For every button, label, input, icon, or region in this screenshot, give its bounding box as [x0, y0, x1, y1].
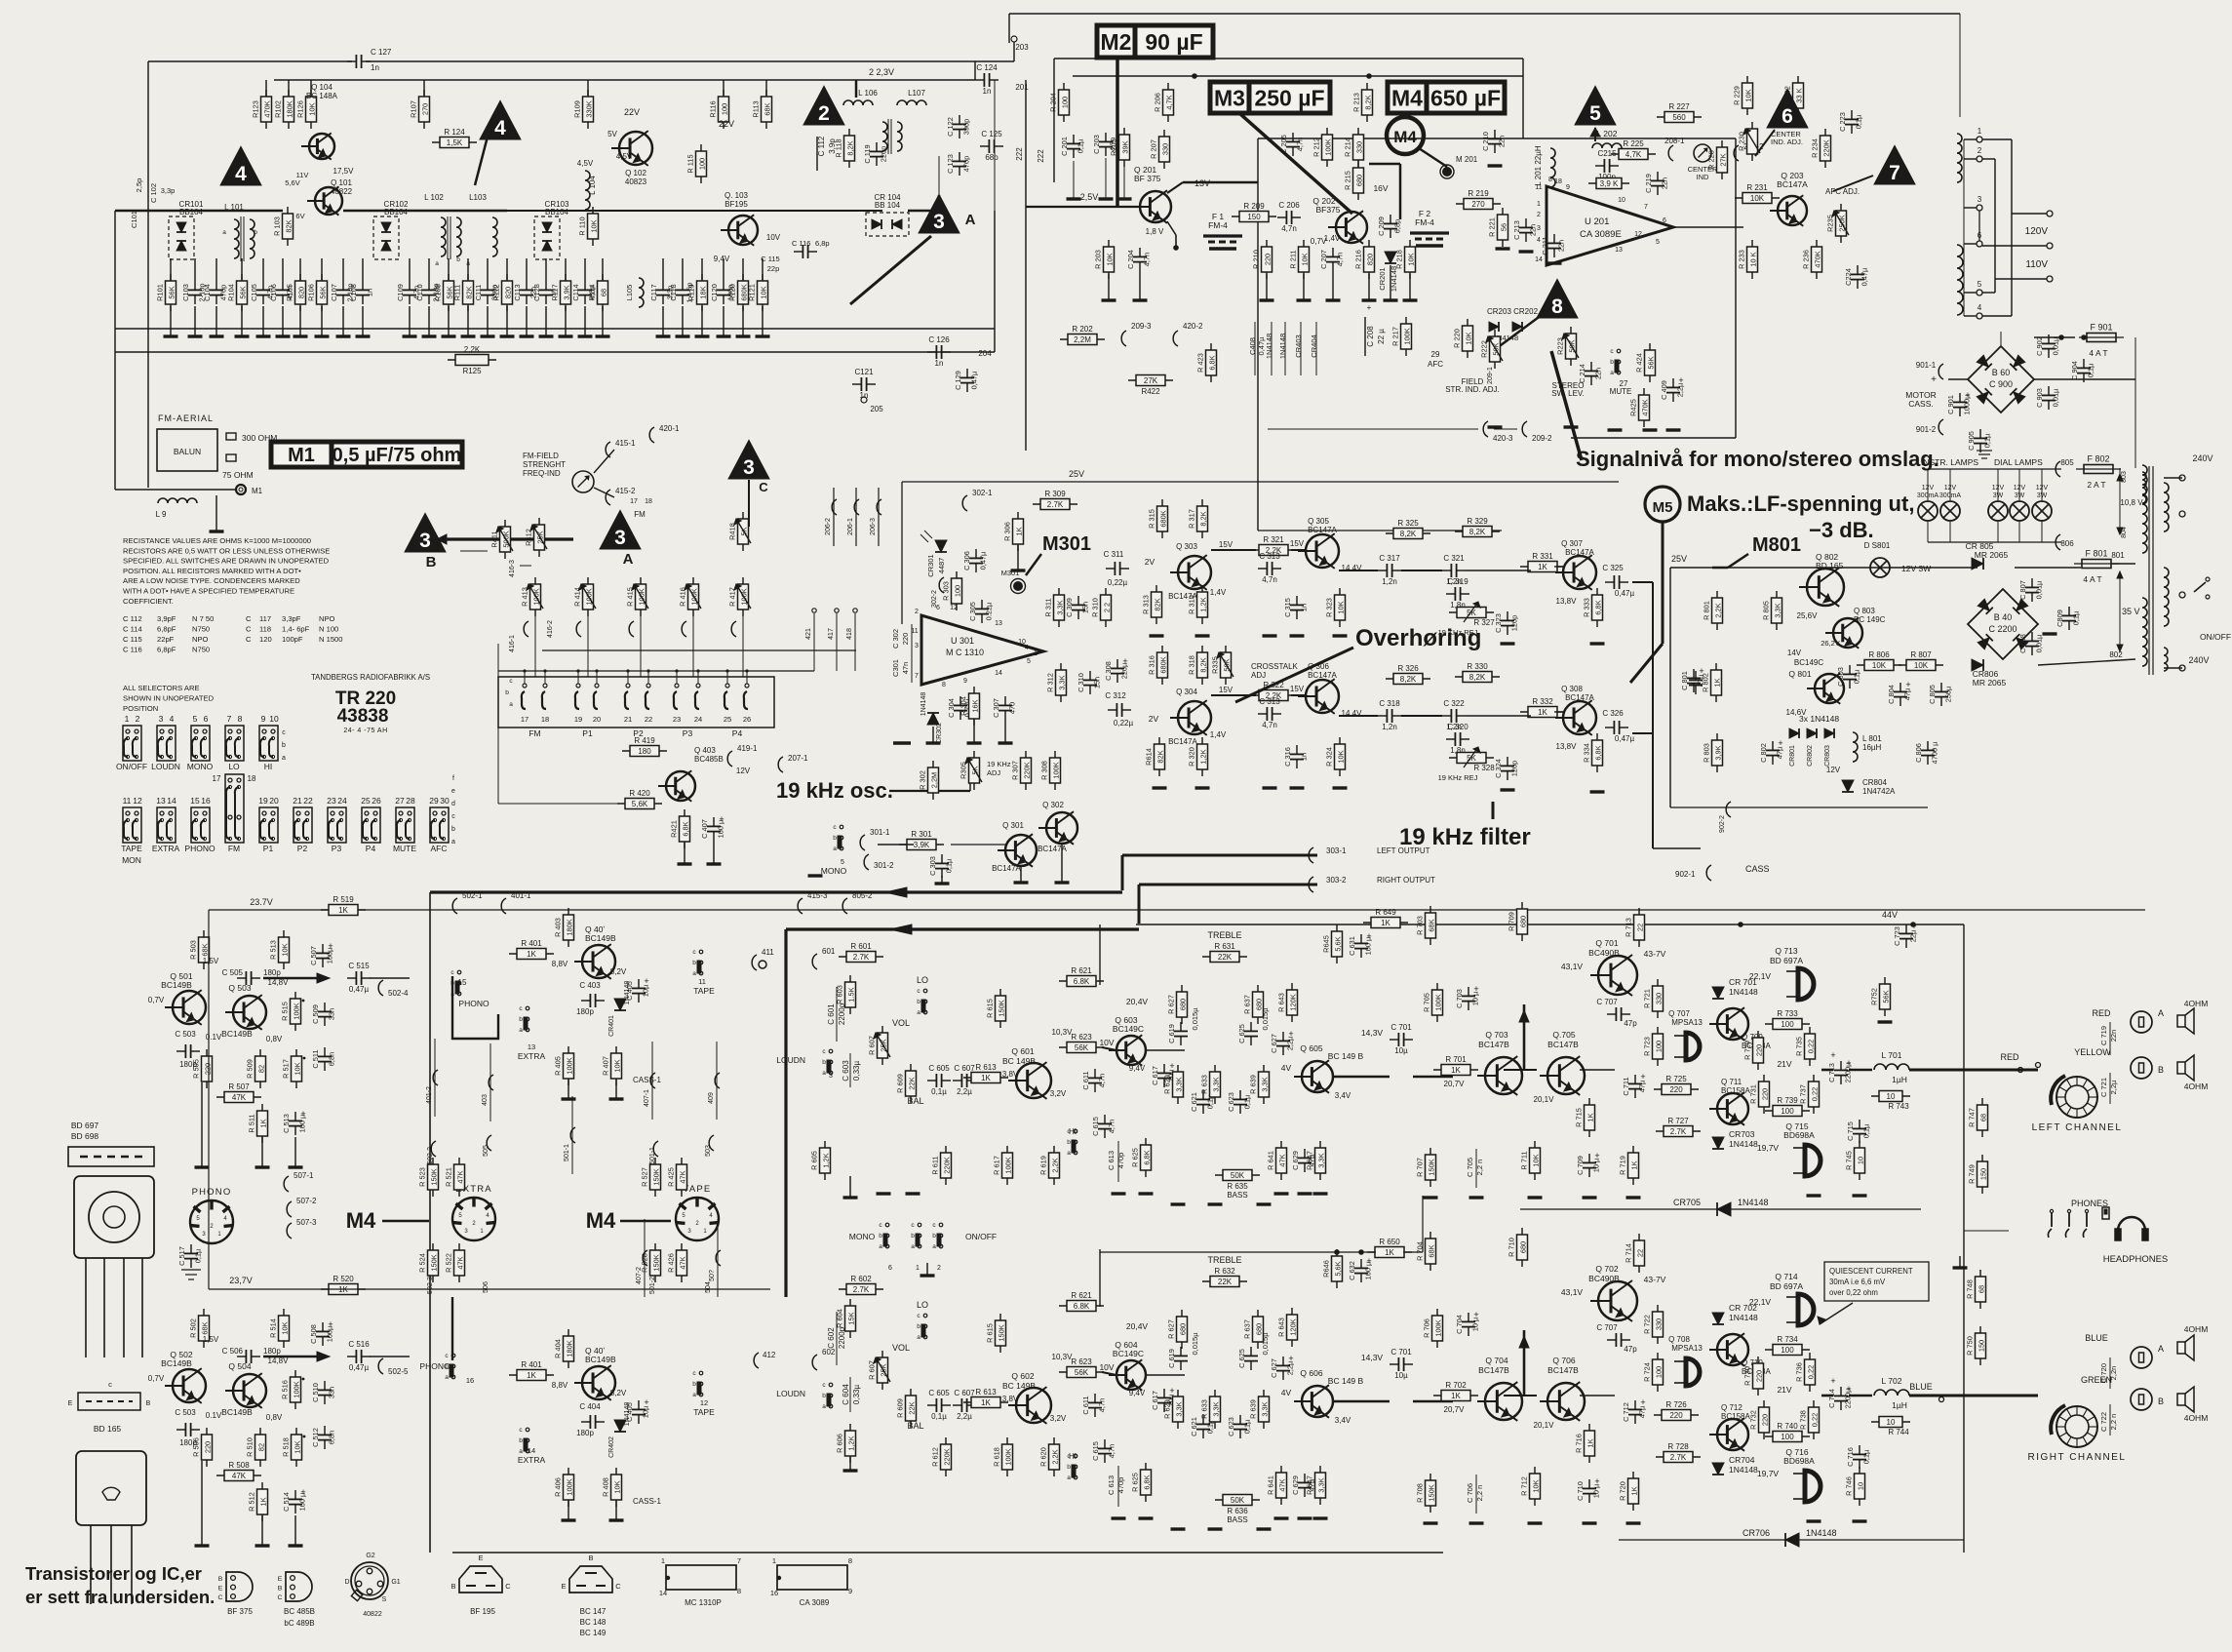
svg-text:220: 220 — [1264, 254, 1273, 265]
svg-text:180p: 180p — [263, 1347, 281, 1356]
svg-text:C 613: C 613 — [1107, 1151, 1116, 1170]
svg-text:−3 dB.: −3 dB. — [1809, 518, 1874, 542]
svg-text:10: 10 — [1887, 1092, 1896, 1101]
svg-text:R 713: R 713 — [1625, 918, 1633, 937]
svg-text:Q 702: Q 702 — [1595, 1264, 1618, 1274]
svg-text:BC490B: BC490B — [1588, 1274, 1620, 1283]
svg-text:a: a — [917, 1334, 920, 1341]
svg-text:1K: 1K — [1538, 708, 1547, 717]
svg-text:C 808: C 808 — [2018, 634, 2027, 653]
svg-text:47K: 47K — [456, 1170, 465, 1183]
svg-text:4,7n: 4,7n — [1108, 1120, 1116, 1133]
svg-text:0,1µ: 0,1µ — [2072, 610, 2081, 625]
svg-text:M5: M5 — [1653, 499, 1673, 516]
svg-text:R 643: R 643 — [1277, 1318, 1286, 1337]
svg-text:33n: 33n — [328, 1387, 336, 1398]
svg-text:1µH: 1µH — [1892, 1075, 1907, 1084]
svg-text:RECISTORS ARE 0,5 WATT OR: RECISTORS ARE 0,5 WATT OR LESS UNLESS OT… — [123, 546, 330, 555]
svg-text:2: 2 — [937, 1265, 941, 1272]
svg-text:3,4V: 3,4V — [1335, 1416, 1351, 1425]
svg-text:22,1V: 22,1V — [1749, 971, 1772, 981]
svg-text:Q 708: Q 708 — [1668, 1335, 1690, 1344]
svg-text:Q 302: Q 302 — [1042, 801, 1064, 809]
svg-text:L 106: L 106 — [858, 89, 878, 98]
svg-text:C809: C809 — [2056, 610, 2064, 627]
svg-text:421: 421 — [805, 628, 812, 640]
svg-text:C 102: C 102 — [149, 183, 158, 203]
svg-text:R 636: R 636 — [1227, 1507, 1248, 1515]
svg-text:82K: 82K — [1156, 750, 1165, 763]
svg-text:R 320: R 320 — [1188, 747, 1196, 767]
svg-text:330: 330 — [1355, 141, 1364, 153]
svg-text:16V: 16V — [1373, 183, 1388, 193]
svg-text:15V: 15V — [1290, 539, 1305, 548]
svg-text:68: 68 — [1977, 1285, 1986, 1293]
svg-text:C224: C224 — [1844, 268, 1853, 286]
svg-text:26: 26 — [372, 796, 381, 806]
svg-text:BC158A: BC158A — [1721, 1412, 1750, 1421]
svg-text:c: c — [917, 1313, 920, 1319]
svg-text:1K: 1K — [338, 906, 348, 915]
svg-text:22K: 22K — [1218, 1278, 1233, 1286]
svg-text:R 407: R 407 — [602, 1056, 610, 1076]
svg-text:L 702: L 702 — [1882, 1376, 1902, 1386]
svg-text:10K: 10K — [1750, 194, 1765, 203]
svg-text:14V: 14V — [1787, 649, 1802, 657]
svg-text:BAL: BAL — [907, 1096, 923, 1106]
svg-text:C 316: C 316 — [1283, 747, 1292, 767]
svg-text:14: 14 — [528, 1446, 535, 1455]
svg-text:0.1V: 0.1V — [206, 1411, 222, 1420]
svg-text:R 607: R 607 — [868, 1360, 877, 1380]
svg-text:R 415: R 415 — [626, 587, 635, 607]
svg-text:0,015µ: 0,015µ — [1261, 1332, 1270, 1356]
svg-text:M301: M301 — [1001, 569, 1020, 577]
svg-text:R 746: R 746 — [1845, 1476, 1854, 1496]
svg-text:R 317: R 317 — [1188, 509, 1196, 529]
svg-text:C 209: C 209 — [1377, 216, 1386, 236]
svg-text:R 623: R 623 — [1071, 1357, 1092, 1366]
svg-text:CR203 CR202: CR203 CR202 — [1487, 307, 1539, 316]
svg-text:FM-4: FM-4 — [1415, 217, 1434, 227]
svg-text:680K: 680K — [1159, 510, 1168, 527]
svg-text:C120: C120 — [710, 284, 719, 301]
svg-text:R614: R614 — [1145, 748, 1154, 766]
svg-text:6: 6 — [1663, 217, 1666, 224]
svg-text:1N4148: 1N4148 — [1729, 1313, 1758, 1322]
svg-text:0,7V: 0,7V — [148, 996, 165, 1004]
svg-text:330K: 330K — [585, 100, 594, 117]
svg-text:Q 304: Q 304 — [1176, 688, 1197, 696]
svg-text:B 40: B 40 — [1994, 612, 2013, 622]
svg-text:1: 1 — [125, 714, 130, 724]
svg-text:R 731: R 731 — [1749, 1084, 1758, 1104]
svg-text:21V: 21V — [1777, 1385, 1791, 1395]
svg-text:R 307: R 307 — [1011, 761, 1020, 780]
svg-text:C 625: C 625 — [1237, 1349, 1246, 1368]
svg-text:C 512: C 512 — [311, 1428, 320, 1447]
svg-text:1,2K: 1,2K — [1199, 749, 1208, 764]
svg-text:7: 7 — [227, 714, 232, 724]
svg-text:S: S — [382, 1596, 387, 1603]
svg-text:L 801: L 801 — [1862, 734, 1882, 743]
svg-text:33 K: 33 K — [1795, 88, 1804, 102]
svg-text:R 704: R 704 — [1416, 1241, 1425, 1261]
svg-text:902-2: 902-2 — [1719, 815, 1726, 833]
svg-text:501-1: 501-1 — [564, 1144, 570, 1161]
svg-text:10K: 10K — [281, 943, 290, 956]
svg-text:4: 4 — [494, 117, 506, 139]
svg-text:1.5K: 1.5K — [847, 987, 856, 1002]
svg-text:MR 2065: MR 2065 — [1975, 550, 2009, 560]
svg-text:R 203: R 203 — [1094, 250, 1103, 269]
svg-text:L 701: L 701 — [1882, 1050, 1902, 1060]
svg-text:C 901: C 901 — [1946, 395, 1955, 414]
svg-text:BD698A: BD698A — [1783, 1130, 1815, 1140]
svg-text:1K: 1K — [1713, 678, 1722, 687]
svg-text:c: c — [932, 1222, 936, 1229]
svg-text:R123: R123 — [252, 100, 260, 118]
svg-text:6V: 6V — [295, 212, 304, 220]
svg-text:3,3K: 3,3K — [1261, 1077, 1270, 1091]
svg-text:150K: 150K — [430, 1168, 439, 1185]
svg-text:3,3K: 3,3K — [1175, 1077, 1184, 1091]
svg-text:40822: 40822 — [363, 1611, 382, 1618]
svg-text:47K: 47K — [232, 1093, 247, 1102]
svg-text:FM: FM — [634, 510, 646, 519]
svg-text:2V: 2V — [1145, 557, 1155, 567]
svg-text:2.7K: 2.7K — [853, 1285, 870, 1294]
svg-text:M1: M1 — [288, 445, 315, 466]
svg-text:0,01µ: 0,01µ — [2052, 336, 2060, 355]
svg-text:R 420: R 420 — [629, 789, 650, 798]
svg-text:100K: 100K — [1052, 762, 1061, 778]
svg-text:c: c — [1610, 348, 1614, 355]
svg-text:B: B — [450, 1582, 455, 1591]
svg-text:+: + — [1594, 1151, 1599, 1160]
svg-text:1K: 1K — [527, 1371, 536, 1380]
svg-text:C121: C121 — [854, 368, 874, 376]
svg-text:22pF: 22pF — [157, 635, 175, 644]
svg-text:506: 506 — [483, 1281, 489, 1293]
svg-text:3,3K: 3,3K — [1212, 1401, 1221, 1416]
svg-text:47µ: 47µ — [1903, 688, 1912, 700]
svg-text:C301: C301 — [891, 659, 900, 677]
svg-text:C 510: C 510 — [311, 1383, 320, 1402]
svg-text:2,2µ: 2,2µ — [957, 1412, 972, 1421]
svg-text:2,2K: 2,2K — [1051, 1158, 1060, 1172]
svg-text:6,8n: 6,8n — [328, 1052, 336, 1066]
svg-text:10: 10 — [1618, 197, 1625, 204]
svg-text:43,1V: 43,1V — [1561, 962, 1584, 971]
svg-text:L103: L103 — [469, 193, 487, 202]
svg-text:9,4V: 9,4V — [1129, 1389, 1146, 1397]
svg-text:C 213: C 213 — [1512, 220, 1521, 240]
svg-text:E: E — [278, 1576, 283, 1583]
svg-text:3x 1N4148: 3x 1N4148 — [1799, 714, 1839, 724]
svg-text:R 424: R 424 — [1635, 353, 1644, 373]
svg-text:4V: 4V — [1281, 1388, 1292, 1397]
svg-text:1n: 1n — [366, 289, 374, 296]
svg-text:P2: P2 — [297, 844, 308, 853]
svg-text:82K: 82K — [465, 286, 474, 298]
svg-text:C 112: C 112 — [123, 614, 142, 623]
svg-text:1,2K: 1,2K — [822, 1153, 831, 1167]
svg-text:47n: 47n — [901, 662, 910, 675]
svg-text:b: b — [451, 826, 455, 833]
svg-text:C 207: C 207 — [1319, 250, 1328, 269]
svg-text:R411: R411 — [490, 531, 499, 547]
svg-text:C103: C103 — [181, 284, 190, 301]
svg-text:R 601: R 601 — [850, 942, 872, 951]
svg-text:R102: R102 — [274, 100, 283, 118]
svg-text:9: 9 — [963, 678, 967, 685]
svg-text:18: 18 — [541, 715, 549, 724]
svg-text:AFC: AFC — [431, 844, 448, 853]
svg-text:4,7n: 4,7n — [1336, 253, 1345, 266]
svg-text:1: 1 — [1034, 650, 1038, 657]
svg-text:10µ: 10µ — [1394, 1046, 1408, 1055]
svg-text:300mA: 300mA — [1917, 492, 1939, 499]
svg-text:P1: P1 — [582, 728, 593, 738]
svg-text:LEFT CHANNEL: LEFT CHANNEL — [2032, 1122, 2123, 1133]
svg-text:R 310: R 310 — [1091, 598, 1100, 617]
svg-text:0,015µ: 0,015µ — [1261, 1007, 1270, 1031]
svg-text:R 523: R 523 — [418, 1167, 427, 1187]
svg-text:C 306: C 306 — [962, 551, 971, 570]
svg-text:0,8V: 0,8V — [266, 1413, 283, 1422]
svg-text:BASS: BASS — [1227, 1191, 1247, 1200]
svg-text:100: 100 — [1781, 1433, 1794, 1441]
svg-text:418: 418 — [846, 628, 853, 640]
svg-text:R 312: R 312 — [1046, 673, 1055, 692]
svg-text:BC149B: BC149B — [161, 1358, 192, 1368]
svg-text:R 417: R 417 — [728, 587, 737, 607]
svg-text:0,1µ: 0,1µ — [1862, 1123, 1871, 1138]
svg-text:3: 3 — [1977, 195, 1982, 204]
svg-text:420-1: 420-1 — [659, 424, 680, 433]
svg-text:6,8K: 6,8K — [1594, 600, 1603, 614]
svg-text:14: 14 — [1535, 256, 1543, 263]
svg-text:Q 104: Q 104 — [311, 83, 333, 92]
svg-text:C 607: C 607 — [954, 1064, 975, 1073]
svg-text:R 806: R 806 — [1868, 650, 1890, 659]
svg-text:412: 412 — [763, 1351, 776, 1359]
svg-text:R 748: R 748 — [1966, 1279, 1975, 1299]
svg-text:+: + — [1366, 931, 1371, 941]
svg-text:R 706: R 706 — [1423, 1318, 1431, 1338]
svg-text:R 502: R 502 — [189, 1318, 198, 1338]
svg-text:BC147A: BC147A — [1308, 671, 1337, 680]
svg-text:2: 2 — [915, 609, 919, 615]
svg-text:MUTE: MUTE — [1610, 387, 1632, 396]
svg-text:3: 3 — [743, 456, 755, 479]
svg-text:207-1: 207-1 — [788, 754, 808, 763]
svg-text:R 206: R 206 — [1154, 93, 1162, 112]
svg-text:150K: 150K — [998, 1324, 1006, 1341]
svg-text:27K: 27K — [1719, 153, 1728, 166]
svg-text:c: c — [282, 729, 286, 736]
svg-text:C408: C408 — [1248, 337, 1257, 355]
svg-text:6: 6 — [936, 605, 940, 611]
svg-text:R 227: R 227 — [1668, 102, 1690, 111]
svg-text:0,47µ: 0,47µ — [970, 371, 979, 389]
svg-text:9: 9 — [848, 1587, 852, 1595]
svg-text:9,4V: 9,4V — [1129, 1064, 1146, 1073]
svg-text:120p: 120p — [1510, 761, 1519, 776]
svg-text:R 612: R 612 — [931, 1447, 940, 1467]
svg-text:R 401: R 401 — [521, 1360, 542, 1369]
svg-text:E: E — [478, 1554, 483, 1562]
svg-text:HI: HI — [264, 762, 273, 771]
svg-text:C 310: C 310 — [1077, 673, 1085, 692]
svg-text:B: B — [2158, 1065, 2164, 1075]
svg-text:0,1µ: 0,1µ — [1983, 433, 1992, 448]
svg-text:C128: C128 — [532, 284, 541, 301]
svg-text:0,01µ: 0,01µ — [2035, 580, 2044, 599]
svg-text:0,015µ: 0,015µ — [1191, 1332, 1199, 1356]
svg-text:33n: 33n — [328, 1008, 336, 1020]
svg-text:BD 697: BD 697 — [71, 1121, 99, 1130]
svg-text:C 605: C 605 — [928, 1389, 950, 1397]
svg-text:180: 180 — [638, 747, 651, 756]
svg-text:R106: R106 — [307, 284, 316, 301]
svg-text:R 512: R 512 — [248, 1492, 256, 1512]
svg-text:1,4V: 1,4V — [1210, 730, 1227, 739]
svg-text:R 627: R 627 — [1167, 1319, 1176, 1339]
svg-text:5: 5 — [196, 1216, 200, 1222]
svg-text:C 303: C 303 — [928, 856, 937, 876]
svg-text:502-5: 502-5 — [388, 1367, 409, 1376]
svg-text:e: e — [451, 788, 455, 795]
svg-text:26: 26 — [743, 715, 751, 724]
svg-text:R 807: R 807 — [1910, 650, 1932, 659]
svg-text:470K: 470K — [263, 100, 272, 117]
svg-text:R 518: R 518 — [282, 1437, 291, 1457]
svg-text:5,6K: 5,6K — [1334, 1261, 1343, 1276]
svg-text:3,3K: 3,3K — [1774, 603, 1782, 617]
svg-text:DIAL LAMPS: DIAL LAMPS — [1994, 457, 2043, 467]
svg-text:BC149B: BC149B — [221, 1029, 253, 1039]
svg-text:22n: 22n — [1498, 136, 1507, 147]
svg-text:+: + — [719, 814, 724, 824]
svg-text:R 507: R 507 — [228, 1082, 250, 1091]
svg-text:23: 23 — [327, 796, 336, 806]
svg-text:M2: M2 — [1101, 29, 1132, 55]
svg-text:8: 8 — [942, 682, 946, 688]
svg-text:24- 4 -75 AH: 24- 4 -75 AH — [343, 728, 387, 734]
svg-text:EXTRA: EXTRA — [518, 1051, 546, 1061]
svg-text:R 515: R 515 — [281, 1002, 290, 1021]
svg-text:c: c — [911, 1222, 915, 1229]
svg-text:b: b — [1067, 1139, 1071, 1146]
svg-text:C 124: C 124 — [976, 63, 998, 72]
svg-text:1K: 1K — [1586, 1438, 1595, 1447]
svg-text:10: 10 — [269, 714, 279, 724]
svg-text:0,1µ: 0,1µ — [194, 1248, 203, 1263]
svg-text:BC149B: BC149B — [221, 1407, 253, 1417]
svg-text:R 803: R 803 — [1703, 743, 1711, 763]
svg-text:CR704: CR704 — [1729, 1455, 1755, 1465]
svg-text:b: b — [1067, 1464, 1071, 1471]
svg-text:2 2,3V: 2 2,3V — [869, 67, 894, 77]
svg-text:C 625: C 625 — [1237, 1024, 1246, 1043]
svg-text:R 747: R 747 — [1968, 1108, 1977, 1127]
svg-text:19 KHz: 19 KHz — [987, 760, 1011, 768]
svg-text:R 331: R 331 — [1532, 552, 1553, 561]
svg-text:27: 27 — [395, 796, 405, 806]
svg-text:C 701: C 701 — [1390, 1023, 1412, 1032]
svg-text:470p: 470p — [1116, 1153, 1125, 1169]
svg-text:M 201: M 201 — [1456, 155, 1478, 164]
svg-text:1n: 1n — [983, 87, 992, 96]
svg-text:8: 8 — [737, 1587, 741, 1595]
svg-text:BC 149 B: BC 149 B — [1328, 1051, 1364, 1061]
svg-text:Q 601: Q 601 — [1011, 1046, 1034, 1056]
svg-text:N750: N750 — [192, 646, 210, 654]
svg-text:403: 403 — [482, 1094, 489, 1106]
svg-text:4: 4 — [1537, 237, 1541, 244]
svg-text:29: 29 — [1431, 350, 1440, 359]
svg-text:C 605: C 605 — [928, 1064, 950, 1073]
svg-text:a: a — [509, 701, 513, 708]
svg-text:14: 14 — [167, 796, 176, 806]
svg-text:R 620: R 620 — [1039, 1447, 1048, 1467]
svg-text:C 617: C 617 — [1151, 1066, 1159, 1085]
svg-text:C 506: C 506 — [222, 1347, 244, 1356]
svg-text:8: 8 — [238, 714, 243, 724]
svg-text:R 311: R 311 — [1044, 598, 1053, 616]
svg-text:A: A — [2158, 1344, 2164, 1354]
svg-text:22V: 22V — [719, 119, 734, 129]
svg-text:G1: G1 — [391, 1579, 400, 1586]
svg-text:R 514: R 514 — [269, 1318, 278, 1338]
svg-text:C: C — [505, 1582, 511, 1591]
svg-text:150K: 150K — [430, 1254, 439, 1271]
svg-text:10: 10 — [1857, 1157, 1865, 1164]
svg-text:1: 1 — [703, 1229, 707, 1235]
svg-text:c: c — [519, 1427, 523, 1434]
svg-text:250µ: 250µ — [1944, 686, 1953, 702]
svg-text:1,5K: 1,5K — [447, 138, 463, 147]
svg-text:M301: M301 — [1042, 533, 1091, 555]
svg-text:R 621: R 621 — [1071, 1291, 1092, 1300]
svg-text:R 334: R 334 — [1583, 743, 1591, 763]
svg-text:4OHM: 4OHM — [2184, 1413, 2209, 1423]
svg-text:a: a — [932, 1243, 936, 1250]
svg-text:15n: 15n — [1081, 602, 1090, 613]
svg-text:82: 82 — [257, 1443, 266, 1451]
svg-text:R 724: R 724 — [1643, 1362, 1652, 1382]
svg-text:3,3K: 3,3K — [1058, 675, 1067, 689]
svg-text:CR706: CR706 — [1743, 1528, 1770, 1538]
svg-text:21: 21 — [624, 715, 632, 724]
svg-text:13: 13 — [156, 796, 166, 806]
svg-text:209-2: 209-2 — [1532, 434, 1552, 443]
svg-text:0,1µ: 0,1µ — [945, 858, 954, 873]
svg-text:12V: 12V — [2036, 485, 2049, 492]
svg-text:C 507: C 507 — [309, 946, 318, 965]
svg-text:R 202: R 202 — [1072, 325, 1093, 334]
svg-text:C 615: C 615 — [1091, 1441, 1100, 1461]
svg-text:9: 9 — [261, 714, 266, 724]
svg-text:240V: 240V — [2192, 453, 2212, 463]
svg-text:3,9 K: 3,9 K — [1600, 179, 1619, 188]
svg-text:C 715: C 715 — [1846, 1121, 1855, 1141]
svg-text:1n: 1n — [371, 63, 379, 72]
svg-text:CR705: CR705 — [1673, 1198, 1701, 1207]
svg-text:+: + — [1169, 1386, 1174, 1396]
